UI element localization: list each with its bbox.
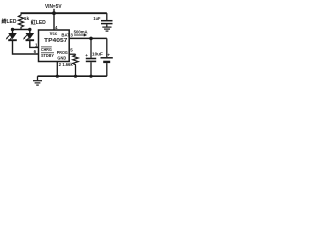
svg-text:+: + (107, 52, 110, 57)
svg-text:綺LED: 綺LED (2, 17, 17, 25)
wire BAT output (69, 37, 107, 39)
resistor 1k (18, 14, 23, 30)
wire PROG pin (69, 53, 75, 55)
svg-text:Vcc: Vcc (50, 31, 58, 36)
wire VIN label stub / Vcc pin drop (53, 9, 55, 30)
wire GND pin to ground rail (56, 61, 58, 76)
wire VIN rail (21, 12, 107, 14)
capacitor C2 10uF (86, 38, 96, 76)
svg-text:CHRG: CHRG (41, 47, 52, 52)
svg-text:+: + (85, 53, 88, 58)
svg-text:10uF: 10uF (92, 52, 103, 57)
battery BT1 (101, 38, 113, 76)
resistor R prog 1.66k (73, 54, 78, 66)
svg-text:BAT: BAT (61, 32, 70, 37)
current arrow (74, 34, 84, 36)
svg-text:GND: GND (57, 56, 66, 61)
ground symbol left (33, 76, 42, 85)
svg-text:PROG: PROG (57, 50, 69, 55)
svg-text:500mA: 500mA (74, 29, 88, 34)
ground symbol right (C1) (102, 27, 111, 31)
junction GND pin (56, 75, 59, 78)
junction prog resistor (74, 75, 77, 78)
svg-text:1uF: 1uF (93, 16, 100, 21)
op chip U1 TP4057 body (39, 30, 70, 62)
svg-text:1k: 1k (24, 16, 30, 22)
wire green LED cathode to STDBY pin (13, 40, 39, 54)
junction capacitor C2 (89, 75, 92, 78)
svg-text:TP4057: TP4057 (44, 38, 67, 44)
svg-text:紅LED: 紅LED (31, 18, 46, 26)
wire red LED cathode to CHRG pin (30, 40, 39, 47)
svg-text:1.66k: 1.66k (62, 62, 73, 67)
LED D2 (red) (23, 30, 34, 42)
junction right anode (28, 28, 31, 31)
junction BAT node (89, 37, 93, 41)
wire resistor to ground rail (75, 66, 77, 76)
svg-text:STDBY: STDBY (41, 53, 54, 58)
junction VIN node (52, 11, 56, 15)
wire ground rail (38, 75, 107, 77)
capacitor C1 1uF (101, 13, 113, 26)
junction left anode (11, 28, 14, 31)
LED D1 (green) (6, 30, 17, 42)
wire LED anode bar (13, 29, 30, 31)
